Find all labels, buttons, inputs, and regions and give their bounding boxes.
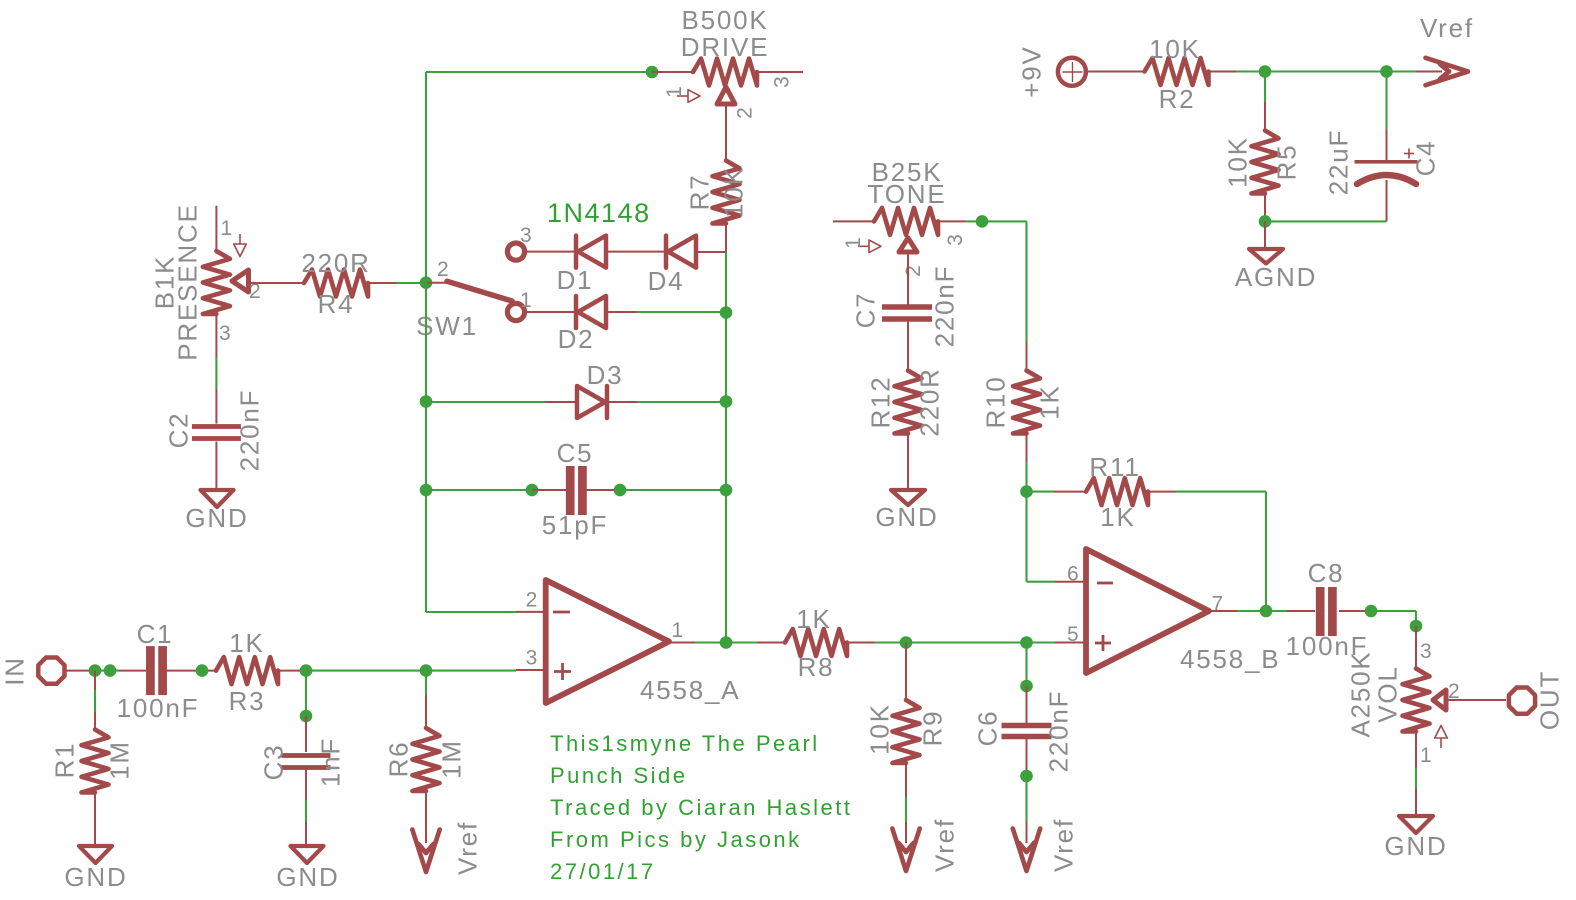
svg-text:220nF: 220nF <box>1044 690 1074 773</box>
svg-text:C2: C2 <box>164 412 194 449</box>
wire <box>94 791 96 846</box>
svg-text:R7: R7 <box>685 174 715 211</box>
resistor R7 10K <box>685 161 749 224</box>
svg-text:10K: 10K <box>1223 136 1253 188</box>
svg-text:27/01/17: 27/01/17 <box>550 859 656 884</box>
svg-text:1: 1 <box>221 217 233 240</box>
svg-text:R2: R2 <box>1159 84 1196 114</box>
wire <box>905 763 907 843</box>
potentiometer TONE B25K <box>833 157 967 277</box>
node R1 node <box>89 664 102 677</box>
capacitor C1 100nF <box>117 619 200 723</box>
wire <box>215 442 217 490</box>
svg-text:220nF: 220nF <box>235 389 265 472</box>
svg-text:1nF: 1nF <box>316 737 346 787</box>
ground GND (VOL) <box>1384 816 1447 861</box>
wire <box>95 670 119 672</box>
annotation credits <box>550 731 853 884</box>
capacitor C2 220nF <box>164 389 265 472</box>
wire <box>1026 433 1028 492</box>
capacitor C7 220nF <box>851 265 960 348</box>
node wire joint <box>104 664 117 677</box>
svg-text:1M: 1M <box>105 740 135 780</box>
node C4 top junction <box>1380 65 1393 78</box>
svg-text:This1smyne The Pearl: This1smyne The Pearl <box>550 731 820 756</box>
potentiometer PRESENCE B1K <box>150 203 261 360</box>
wire <box>982 221 1027 371</box>
wire <box>726 641 785 643</box>
wire <box>1415 626 1417 668</box>
svg-text:2: 2 <box>902 265 925 277</box>
svg-text:2: 2 <box>733 107 756 119</box>
wire <box>907 433 909 490</box>
wire <box>698 224 726 252</box>
wire <box>652 71 692 73</box>
svg-text:R8: R8 <box>798 652 835 682</box>
wire <box>1265 70 1387 72</box>
svg-text:1: 1 <box>520 289 532 312</box>
connector OUT <box>1509 670 1565 730</box>
svg-text:4558_A: 4558_A <box>640 675 740 705</box>
svg-text:Vref: Vref <box>930 818 960 872</box>
wire <box>907 321 909 371</box>
svg-text:R9: R9 <box>918 710 948 747</box>
wire <box>1264 221 1266 249</box>
wire <box>368 282 426 284</box>
node C5 wire joint left <box>526 484 539 497</box>
diode D3 <box>545 360 637 418</box>
op-amp U2 4558_B <box>1067 549 1280 674</box>
svg-text:10K: 10K <box>1149 34 1201 64</box>
potentiometer VOL A250K <box>1346 640 1460 767</box>
wire <box>306 669 546 672</box>
wire <box>637 401 726 403</box>
svg-text:1K: 1K <box>1035 384 1065 419</box>
svg-text:1: 1 <box>663 86 686 98</box>
potentiometer DRIVE B500K <box>663 5 803 119</box>
wire <box>669 642 726 644</box>
svg-text:51pF: 51pF <box>542 510 608 540</box>
wire <box>426 611 546 613</box>
wire <box>305 769 307 846</box>
svg-text:Punch Side: Punch Side <box>550 763 688 788</box>
node R6 node <box>420 664 433 677</box>
wire <box>425 791 427 843</box>
node R9 node <box>900 636 913 649</box>
node Vref-divider junction <box>1259 65 1272 78</box>
wire <box>1025 643 1027 687</box>
wire <box>532 489 566 491</box>
wire <box>907 252 909 305</box>
wire <box>725 104 727 160</box>
wire <box>1027 641 1087 643</box>
svg-text:1M: 1M <box>437 739 467 779</box>
svg-text:1: 1 <box>1420 744 1432 767</box>
svg-text:C8: C8 <box>1308 558 1345 588</box>
ground GND (R12) <box>875 490 938 532</box>
node C3 joint <box>300 710 313 723</box>
svg-text:C3: C3 <box>259 744 289 781</box>
wire <box>1209 610 1266 612</box>
node C5 right node <box>720 484 733 497</box>
svg-text:Vref: Vref <box>453 821 483 875</box>
svg-text:C4: C4 <box>1411 140 1441 177</box>
wire <box>847 642 1027 644</box>
resistor R4 220R <box>301 248 370 319</box>
wire <box>1026 686 1028 723</box>
capacitor C4 22uF polarized <box>1324 129 1441 195</box>
svg-text:10K: 10K <box>719 166 749 218</box>
svg-text:OUT: OUT <box>1535 670 1565 730</box>
connector IN <box>0 656 64 686</box>
node pin5 node <box>1020 636 1033 649</box>
node C8-VOL node <box>1365 605 1378 618</box>
wire <box>305 671 307 716</box>
svg-text:D3: D3 <box>587 360 624 390</box>
resistor R11 1K <box>1086 452 1148 532</box>
supply symbol Vref (right arrow) <box>1420 13 1474 85</box>
wire <box>1025 776 1027 843</box>
wire <box>1446 699 1506 701</box>
svg-text:DRIVE: DRIVE <box>681 32 769 62</box>
wire <box>1026 739 1028 776</box>
wire <box>1387 70 1443 72</box>
svg-text:Vref: Vref <box>1049 818 1079 872</box>
wire <box>215 314 217 424</box>
node C6 bottom joint <box>1020 770 1033 783</box>
svg-text:220R: 220R <box>301 248 370 278</box>
svg-text:6: 6 <box>1067 562 1079 585</box>
svg-text:3: 3 <box>219 322 231 345</box>
wire <box>167 670 215 672</box>
node C5 wire joint right <box>614 484 627 497</box>
resistor R1 1M <box>50 730 135 793</box>
wire <box>586 489 620 491</box>
wire <box>1266 610 1315 612</box>
svg-text:4558_B: 4558_B <box>1180 644 1280 674</box>
svg-text:R1: R1 <box>50 742 80 779</box>
svg-text:AGND: AGND <box>1235 262 1317 292</box>
svg-text:R4: R4 <box>318 289 355 319</box>
wire <box>66 670 96 672</box>
wire <box>1027 492 1087 582</box>
svg-text:7: 7 <box>1212 593 1224 616</box>
node diode bus node <box>720 306 733 319</box>
svg-text:D4: D4 <box>648 266 685 296</box>
node D3 right node <box>720 395 733 408</box>
svg-text:3: 3 <box>1420 640 1432 663</box>
wire <box>119 670 146 672</box>
svg-text:A250K: A250K <box>1346 650 1376 737</box>
wire <box>1264 194 1266 221</box>
svg-text:R11: R11 <box>1089 452 1140 482</box>
svg-text:D1: D1 <box>557 265 594 295</box>
capacitor C6 220nF <box>973 690 1074 773</box>
svg-text:TONE: TONE <box>868 179 947 209</box>
diode D1 <box>527 236 664 295</box>
svg-text:+9V: +9V <box>1017 45 1047 97</box>
svg-text:VOL: VOL <box>1373 665 1403 722</box>
wire <box>1265 220 1387 222</box>
diode D2 <box>527 296 637 354</box>
svg-text:IN: IN <box>0 656 30 686</box>
ground AGND <box>1235 249 1317 292</box>
wire <box>1236 70 1266 72</box>
resistor R6 1M <box>384 728 467 791</box>
node C5 left node <box>420 484 433 497</box>
svg-text:220nF: 220nF <box>930 265 960 348</box>
resistor R8 1K <box>785 604 847 682</box>
svg-text:1K: 1K <box>1100 502 1135 532</box>
svg-text:From Pics by Jasonk: From Pics by Jasonk <box>550 827 802 852</box>
svg-text:1K: 1K <box>229 628 264 658</box>
svg-text:GND: GND <box>64 862 127 892</box>
resistor R12 220R <box>866 367 945 436</box>
wire <box>1415 732 1417 816</box>
svg-text:100nF: 100nF <box>117 693 200 723</box>
ground GND (R1) <box>64 846 127 892</box>
resistor R9 10K <box>865 700 948 763</box>
wire <box>426 489 532 491</box>
svg-text:GND: GND <box>875 502 938 532</box>
svg-text:10K: 10K <box>865 703 895 755</box>
svg-text:R5: R5 <box>1272 144 1302 181</box>
switch SW1 <box>416 224 532 341</box>
wire <box>249 282 305 284</box>
svg-text:Traced by Ciaran Haslett: Traced by Ciaran Haslett <box>550 795 853 820</box>
svg-text:D2: D2 <box>558 324 595 354</box>
svg-text:C5: C5 <box>557 438 594 468</box>
svg-text:1: 1 <box>842 237 865 249</box>
capacitor C3 1nF <box>259 737 346 787</box>
svg-text:R12: R12 <box>866 375 896 428</box>
wire <box>1386 180 1388 221</box>
wire <box>1264 72 1266 132</box>
wire <box>279 670 306 672</box>
svg-text:3: 3 <box>526 646 538 669</box>
wire <box>94 671 96 731</box>
wire <box>1371 611 1416 626</box>
supply symbol Vref (C6) <box>1013 818 1079 872</box>
svg-text:1: 1 <box>672 619 684 642</box>
svg-text:3: 3 <box>770 76 793 88</box>
node R5-C4 bottom junction <box>1259 215 1272 228</box>
node op-amp B output node <box>1260 605 1273 618</box>
svg-text:3: 3 <box>520 224 532 247</box>
node SW1 pin2 node <box>420 276 433 289</box>
node R10-R11 node <box>1020 485 1033 498</box>
wire <box>938 220 982 222</box>
node R3-C3 node <box>300 664 313 677</box>
node TONE pin3 node <box>976 215 989 228</box>
resistor R3 1K <box>216 628 278 716</box>
svg-text:B500K: B500K <box>681 5 768 35</box>
wire <box>426 71 652 73</box>
svg-text:R3: R3 <box>229 686 266 716</box>
svg-text:220R: 220R <box>915 367 945 436</box>
svg-text:Vref: Vref <box>1420 13 1474 43</box>
svg-text:GND: GND <box>1384 831 1447 861</box>
svg-text:2: 2 <box>526 589 538 612</box>
wire <box>725 252 727 643</box>
wire <box>425 72 427 612</box>
ground GND (C3) <box>276 846 339 892</box>
power supply +9V <box>1017 45 1086 97</box>
supply symbol Vref (R9) <box>892 818 959 872</box>
node DRIVE pin1 node <box>646 66 659 79</box>
svg-text:3: 3 <box>944 234 967 246</box>
resistor R5 10K <box>1223 131 1302 194</box>
wire <box>905 643 907 701</box>
op-amp U1 4558_A <box>526 580 741 705</box>
supply symbol Vref (R6) <box>412 821 482 875</box>
wire <box>425 671 427 728</box>
wire <box>1027 491 1087 493</box>
svg-text:C7: C7 <box>851 292 881 329</box>
ground GND (C2) <box>185 490 248 533</box>
svg-text:C1: C1 <box>137 619 174 649</box>
svg-text:1K: 1K <box>796 604 831 634</box>
wire <box>1148 492 1266 611</box>
svg-text:GND: GND <box>276 862 339 892</box>
capacitor C5 51pF <box>542 438 608 540</box>
capacitor C8 100nF <box>1286 558 1369 661</box>
diode D4 <box>648 236 696 296</box>
resistor R2 10K <box>1145 34 1237 114</box>
label 1N4148 <box>547 198 651 228</box>
svg-text:R6: R6 <box>384 741 414 778</box>
resistor R10 1K <box>981 371 1065 434</box>
wire <box>620 489 726 491</box>
wire <box>426 401 545 403</box>
svg-text:2: 2 <box>437 258 449 281</box>
wire <box>305 716 307 752</box>
svg-text:1N4148: 1N4148 <box>547 198 651 228</box>
svg-text:PRESENCE: PRESENCE <box>173 203 203 360</box>
node D3 left node <box>420 395 433 408</box>
node VOL top joint <box>1410 620 1423 633</box>
wire <box>1339 610 1371 612</box>
svg-text:R10: R10 <box>981 375 1011 428</box>
node C1-R3 joint <box>196 664 209 677</box>
node op-amp A output node <box>720 636 733 649</box>
node SW row - left bus <box>0 0 1 1</box>
node C6 top joint <box>1020 680 1033 693</box>
wire <box>1385 72 1387 161</box>
wire <box>637 311 726 313</box>
svg-text:C6: C6 <box>973 710 1003 747</box>
svg-text:22uF: 22uF <box>1324 129 1354 195</box>
svg-text:GND: GND <box>185 503 248 533</box>
wire <box>1086 71 1146 73</box>
